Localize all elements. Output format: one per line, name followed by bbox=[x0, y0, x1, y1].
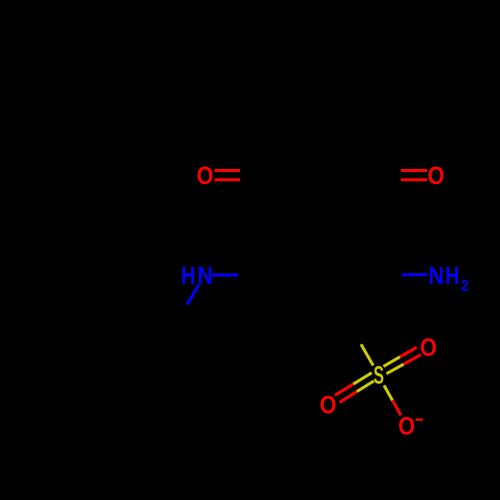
atom S: sulfonate sulfur label bbox=[374, 366, 383, 384]
bond N2-C1 horizontal (blue half) bbox=[402, 273, 427, 276]
bond N1-C4 horizontal (blue half) bbox=[212, 274, 238, 277]
atom O9: left carbonyl oxygen label bbox=[198, 167, 213, 185]
bond S=O1s lower line (red half) bbox=[404, 355, 421, 365]
bond S-C2 single to ring (yellow half) bbox=[361, 344, 373, 365]
bond S=O1s upper line (yellow half) bbox=[383, 357, 400, 367]
atom O3s: sulfonate O-minus label bbox=[399, 417, 414, 435]
bond S=O2s upper line (red half) bbox=[335, 384, 353, 395]
atom N2: amino nitrogen label N of NH2 bbox=[430, 267, 443, 284]
bond S=O1s lower line (yellow half) bbox=[387, 364, 404, 374]
atom O10: right carbonyl oxygen label bbox=[429, 167, 444, 185]
atom O1s: sulfonyl oxygen top-right label bbox=[421, 338, 436, 356]
bond S=O2s upper line (yellow half) bbox=[353, 373, 371, 384]
bond C9=O9 upper line (red half) bbox=[215, 169, 241, 172]
bond S=O2s lower line (yellow half) bbox=[357, 381, 374, 392]
bond C10=O10 lower line (red half) bbox=[401, 178, 427, 181]
atom O2s: sulfonyl oxygen left label bbox=[321, 396, 336, 414]
atom N2: amino label H of NH2 bbox=[446, 267, 458, 284]
bond S-O3s single (yellow half) bbox=[384, 385, 392, 400]
atom N2: amino label subscript 2 of NH2 bbox=[461, 280, 468, 290]
bond C10=O10 upper line (red half) bbox=[401, 169, 427, 172]
bond N1-Cipso diagonal to phenyl (blue half) bbox=[187, 285, 199, 305]
bond S=O1s upper line (red half) bbox=[400, 347, 417, 357]
negative charge minus sign on O3s bbox=[416, 418, 423, 420]
bond S-O3s single (red half) bbox=[392, 400, 400, 415]
atom N1: anilino nitrogen label H of HN bbox=[182, 267, 194, 284]
bond S=O2s lower line (red half) bbox=[340, 392, 357, 403]
bond C9=O9 lower line (red half) bbox=[215, 178, 241, 181]
atom N1: anilino nitrogen label N of HN bbox=[199, 267, 212, 284]
